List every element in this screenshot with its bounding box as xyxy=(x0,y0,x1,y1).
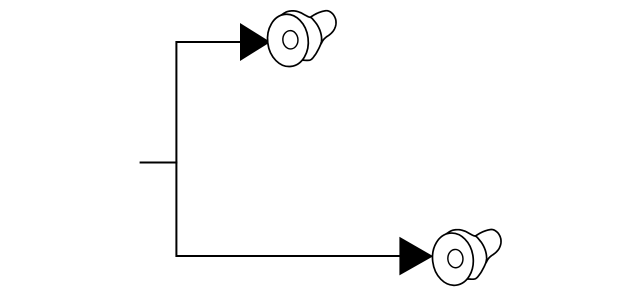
arrow to bottom clip xyxy=(399,237,433,276)
retainer clip (top) xyxy=(265,11,336,69)
wire: leader stub left xyxy=(140,162,178,164)
clip flange rim (back edge) xyxy=(281,11,322,61)
clip flange front face xyxy=(430,231,477,288)
retainer clip (bottom) xyxy=(430,230,501,288)
clip stem (shank with rounded cap) xyxy=(310,11,337,47)
clip center hole xyxy=(447,249,463,268)
clip center hole xyxy=(282,30,298,49)
clip flange rim (back edge) xyxy=(446,230,487,280)
clip stem (shank with rounded cap) xyxy=(475,230,502,266)
arrow to top clip xyxy=(240,23,271,61)
wire: bracket top/vertical/bottom xyxy=(176,42,401,256)
clip flange front face xyxy=(265,12,312,69)
